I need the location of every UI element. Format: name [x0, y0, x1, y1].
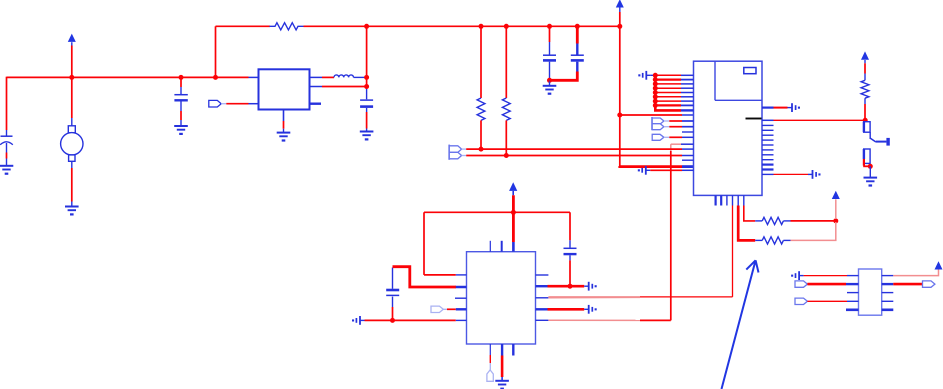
wire: pink net corner at U2 — [671, 143, 681, 145]
pin U3 bottom 1 — [489, 344, 491, 355]
ground — [174, 126, 188, 135]
power arrow U4 — [935, 261, 943, 269]
ground (rotated) right r1 — [788, 103, 801, 112]
pin stub U2 right r6 — [762, 139, 774, 141]
wire: U3 ground pin (thick) — [501, 356, 504, 381]
node: pin4 junction — [364, 84, 369, 89]
node: bus junction 7 — [653, 99, 658, 104]
wire: supply rail y=212.3 — [424, 211, 570, 213]
wire: VDD stub — [619, 8, 621, 27]
power arrow U3 supply — [509, 182, 517, 191]
pin stub U2 row15 — [682, 148, 694, 150]
node: C2 junction — [179, 75, 184, 80]
pin stub U3 L5 — [456, 319, 467, 321]
pin stub U4 L2 (thick) — [846, 283, 859, 285]
node: rail corner junction — [213, 75, 218, 80]
resistor R4 — [762, 217, 783, 224]
pin stub U2 right r8 — [762, 149, 774, 151]
ground (rotated) left of U4 — [791, 271, 804, 280]
wire: bus row 4 — [655, 87, 681, 89]
wire: motor top lead — [71, 77, 73, 118]
wire: main rail y=77.4 — [7, 76, 249, 78]
resistor R6 — [861, 80, 869, 98]
wire: J4 bottom to U2 — [462, 155, 682, 157]
node: rail/R2 — [479, 24, 484, 29]
pin stub U2 right r1 (thick) — [762, 106, 774, 108]
node: L1 output — [364, 75, 369, 80]
wire: C6 to U3 pin L2 (thick) — [393, 267, 457, 287]
wire: J2 to U2 — [664, 126, 682, 128]
pin U3 bottom 2 (thick) — [501, 344, 503, 356]
node: C7 junction — [568, 284, 573, 289]
pin stub U2 right r3 — [762, 124, 774, 126]
node: C6 ground junction — [390, 318, 395, 323]
wire: U1 bottom pin — [283, 110, 285, 133]
connector J9 — [923, 281, 935, 287]
pin stub U2 right r12 — [762, 168, 774, 170]
ground — [543, 86, 557, 95]
capacitor C7 — [564, 240, 577, 286]
pin stub U2 — [682, 120, 694, 122]
pin stub U2 left row 3 — [681, 83, 694, 85]
wire: R2 top leg — [480, 26, 482, 98]
wire: junction to ground stub — [549, 80, 551, 86]
wire: bus row 2 — [655, 78, 681, 80]
connector J6 (pointing up) — [487, 370, 493, 381]
ground — [65, 207, 79, 216]
wire: riser to top rail — [215, 26, 217, 77]
pin stub U4 R2 (thick) — [882, 283, 894, 285]
transistor Q1 — [863, 122, 890, 167]
pin stub U3 R2 (thick) — [536, 285, 548, 287]
pin stub U2 bottom — [732, 195, 734, 205]
node: rail/motor junction — [69, 75, 74, 80]
pin stub U2 row18 (thick) — [682, 165, 694, 168]
ground — [495, 381, 509, 389]
capacitor C5 — [571, 26, 584, 71]
pin 4 U1 right stub — [310, 86, 323, 88]
ground — [864, 178, 878, 187]
wire: top rail y=26.3 left of R1 — [216, 25, 271, 27]
wire: ground to U2 pin — [650, 169, 682, 171]
pin U3 bottom 3 (thick) — [512, 344, 514, 356]
pin stub U3 L2 (thick) — [456, 286, 467, 289]
node: R4/R5 junction — [833, 218, 838, 223]
node: bus junction 1 — [653, 73, 658, 78]
pin stub U2 row12 — [682, 131, 694, 133]
pin stub U4 R3 — [882, 292, 894, 294]
capacitor C1 (polarized) — [0, 130, 13, 166]
pin stub U2 right r2 — [762, 119, 774, 121]
wire: to J6 — [489, 355, 491, 370]
connector J3 — [652, 134, 664, 140]
capacitor C6 — [386, 268, 399, 321]
resistor R1 — [270, 23, 304, 30]
wire: bus row 7 — [655, 100, 681, 102]
pin 2 U1 left stub — [249, 103, 259, 105]
pin stub U2 left row 6 — [681, 96, 694, 98]
wire: U2 bottom pin to U3 row3 (vertical) — [732, 206, 734, 297]
node: R3 bottom junction — [504, 153, 509, 158]
node: bus junction 8 — [653, 103, 658, 108]
inductor L1 — [334, 75, 354, 77]
pin 5 U1 right stub — [310, 102, 322, 104]
ground (rotated) at bus top — [638, 71, 651, 80]
pin stub U2 right r9 — [762, 154, 774, 156]
op-amp U3 box — [467, 252, 536, 344]
wire: U1 to L1 — [322, 76, 334, 78]
wire: bus corner row (thick) — [655, 104, 681, 110]
node: bus junction 5 — [653, 90, 658, 95]
wire: J1 to U1 pin 2 — [221, 103, 248, 105]
connector J1 — [209, 100, 221, 107]
wire: U3 supply vertical (thick) — [512, 195, 515, 242]
pin stub U2 left row 4 — [681, 87, 694, 89]
wire: long vertical to U2 area — [619, 26, 621, 166]
capacitor C4 — [543, 26, 556, 80]
pin stub U4 R1 — [882, 275, 894, 277]
wire: top rail y=26.3 right of R1 — [304, 25, 620, 27]
pin stub U3 L4 (thick) — [456, 308, 467, 310]
ground — [0, 166, 13, 175]
power arrow VDD — [616, 0, 624, 8]
pin stub U2 row17 — [682, 159, 694, 161]
motor M1 — [61, 118, 83, 168]
wire: U4 R1 to power arrow — [893, 269, 938, 276]
op-amp U4 box — [859, 269, 882, 315]
node: Q1 drain junction — [863, 118, 868, 123]
node: Q1 source junction — [868, 164, 873, 169]
wire: ground to C6 junction to U3 — [365, 319, 456, 321]
node: bus junction 2 — [653, 77, 658, 82]
pin stub U2 left row 1 — [681, 74, 694, 76]
wire: R2 bottom leg — [480, 120, 482, 149]
pin stub U3 R1 — [536, 274, 549, 276]
pin stub U2 row13 — [682, 136, 694, 138]
wire: U4 R2 to J9 (thick) — [893, 283, 922, 286]
pin stub U3 L1 — [456, 274, 467, 276]
capacitor C3 — [360, 89, 373, 132]
resistor R3 — [502, 98, 510, 120]
pin stub U2 left row 7 — [681, 100, 694, 102]
pin stub U4 L1 — [847, 275, 859, 277]
pin 1 U1 left stub — [249, 76, 259, 78]
U2 crystal window — [744, 68, 756, 74]
pin stub U2 row16 — [682, 155, 694, 157]
ground — [277, 133, 291, 142]
wire: arrow to R6 — [864, 60, 866, 74]
wire: junction to U2 pin row — [620, 114, 682, 116]
wire: U3 R3 pink net — [548, 296, 640, 298]
pin stub U2 left row 2 — [681, 79, 694, 81]
pin U3 top 2 — [501, 241, 503, 252]
resistor R2 — [477, 98, 485, 120]
pin stub U3 L3 — [455, 297, 467, 299]
wire: J8 to U4 L4 — [807, 300, 847, 302]
node: rail/C5 — [575, 24, 580, 29]
pin stub U2 bottom — [720, 195, 722, 205]
pin stub U3 R5 — [536, 319, 549, 321]
wire: to U3 pin L1 — [424, 274, 456, 276]
power arrow Q1 — [861, 51, 869, 59]
connector J5 — [431, 306, 443, 312]
wire: thick L to U2 pin (VSS) — [620, 165, 682, 168]
connector J7 — [795, 281, 807, 287]
pin stub U3 R4 (thick) — [536, 308, 548, 310]
wire: node link — [366, 77, 368, 89]
pin stub U4 L5 (thick) — [846, 308, 859, 311]
wire: J5 to U3 — [443, 308, 456, 310]
ground (rotated) right r13 — [808, 170, 821, 179]
pin stub U2 row9 (thick) — [681, 109, 694, 111]
wire: bus row 3 — [655, 83, 681, 85]
pin stub U4 L4 — [847, 300, 859, 302]
node: bus junction 3 — [653, 81, 658, 86]
wire: R3 bottom leg — [505, 120, 507, 155]
U2 inner block — [715, 61, 762, 100]
pin stub U2 row19 — [682, 169, 694, 171]
wire: bus row 5 — [655, 92, 681, 94]
pin stub U2 right r11 — [762, 164, 774, 166]
node: C4/C5 ground junction — [547, 78, 552, 83]
wire: Q1 source to ground — [869, 166, 871, 177]
pin stub U3 R3 — [536, 297, 549, 299]
wire: U3 R4 to ground (thick) — [548, 308, 585, 311]
resistor R5 leads — [755, 239, 790, 241]
wire: r1 to ground — [774, 107, 788, 109]
wire: ground to U4 L1 — [804, 275, 847, 277]
pin stub U2 — [682, 126, 694, 128]
wire: bus stub — [651, 74, 656, 76]
connector J4 (double pentagon B) — [449, 145, 461, 160]
wire: bus row 6 — [655, 96, 681, 98]
annotation arrow (callout) — [722, 260, 759, 389]
wire: J2 to U2 — [664, 120, 682, 122]
wire: VCC stub — [71, 42, 73, 77]
ground — [360, 132, 374, 141]
power arrow VCC — [68, 34, 76, 42]
pin stub U4 L3 — [847, 292, 859, 294]
ground (rotated) right of U3 R2 — [584, 282, 596, 291]
wire: left drop to C1 — [6, 77, 8, 130]
pin stub U2 row10 — [682, 114, 694, 116]
wire: bus row 1 — [655, 74, 681, 76]
wire: R5 to junction (pink) — [791, 222, 836, 240]
wire: R6 to Q1 drain — [864, 104, 866, 120]
node: feedback junction — [364, 24, 369, 29]
wire: bus row 8 — [655, 104, 681, 106]
wire: rail left drop — [423, 212, 425, 275]
pin stub U2 right r7 — [762, 144, 774, 146]
wire: U1 pin4 to node — [322, 86, 367, 88]
connector J8 — [795, 298, 807, 304]
wire: J3 to U2 — [664, 136, 682, 138]
node: rail/R3 — [504, 24, 509, 29]
wire: U2 to Q1 gate — [774, 119, 864, 121]
wire: U2 bottom pin to R4 — [744, 206, 755, 221]
capacitor C2 — [174, 77, 187, 126]
pin stub U2 right r13 — [762, 173, 774, 175]
op-amp U2 (MCU box) — [694, 61, 763, 195]
wire: J7 to U4 L2 (thick) — [807, 283, 846, 286]
wire: arrow stem — [512, 191, 514, 195]
wire: L1 to node — [354, 76, 367, 78]
pin U3 top 3 (thick) — [512, 242, 515, 252]
ground (rotated) left of U3 — [352, 316, 365, 325]
pin U3 top 1 — [489, 241, 491, 252]
resistor R5 — [762, 237, 783, 244]
wire: arrow stub (pink) — [835, 199, 837, 219]
pin stub U2 left row 5 — [681, 92, 694, 94]
wire: rail right drop to C7 — [569, 212, 571, 240]
wire: drop from top rail to L1 output — [366, 26, 368, 77]
node: rail end junction — [617, 24, 622, 29]
node: bus junction 4 — [653, 86, 658, 91]
power arrow — [832, 191, 840, 199]
pin stub U2 right r10 — [762, 159, 774, 161]
node: R2 bottom junction — [479, 147, 484, 152]
op-amp U1 (regulator box) — [259, 69, 310, 109]
pin stub U2 bottom — [726, 195, 728, 205]
black marker line — [746, 118, 762, 120]
connector J2 (double pentagon) — [652, 117, 664, 130]
pin stub U4 R4 — [882, 300, 894, 302]
wire: U2 bottom pin to R5 (thick) — [738, 206, 755, 241]
pin stub U2 bottom — [737, 195, 739, 205]
wire: R4 to junction — [791, 220, 835, 222]
ground (rotated) right of U3 R4 — [584, 305, 596, 314]
ground (rotated) bottom left — [638, 166, 651, 175]
node: bus junction 6 — [653, 94, 658, 99]
pin stub U2 right r4 — [762, 129, 774, 131]
pin stub U2 bottom — [714, 195, 716, 205]
wire: bus vertical — [654, 75, 656, 110]
wire: R3 top leg — [505, 26, 507, 98]
wire: C5 to ground junction (thick) — [550, 72, 578, 81]
pin 3 U1 right stub — [310, 76, 323, 78]
wire: J4 top to U2 — [462, 148, 682, 150]
node: U2 row junction — [617, 113, 622, 118]
wire: motor bottom lead — [71, 168, 73, 207]
wire: r13 to ground — [774, 173, 809, 175]
resistor R4 leads — [755, 220, 790, 222]
wire: U3 R5 pink net — [548, 319, 670, 321]
resistor R6 leads — [864, 74, 866, 105]
pin stub U2 bottom — [743, 195, 745, 205]
wire: long vertical net to U3 — [670, 144, 672, 320]
node: rail/C4 — [547, 24, 552, 29]
wire: U3 R2 to ground (thick) — [548, 285, 585, 288]
pin stub U2 left row 8 — [681, 104, 694, 106]
pin stub U2 right r5 — [762, 134, 774, 136]
wire: net to U3 row3 (horizontal) — [548, 296, 732, 298]
pin stub U4 R5 (thick) — [882, 308, 894, 311]
pin stub U2 row14 — [681, 143, 694, 145]
node: supply rail junction — [511, 210, 516, 215]
